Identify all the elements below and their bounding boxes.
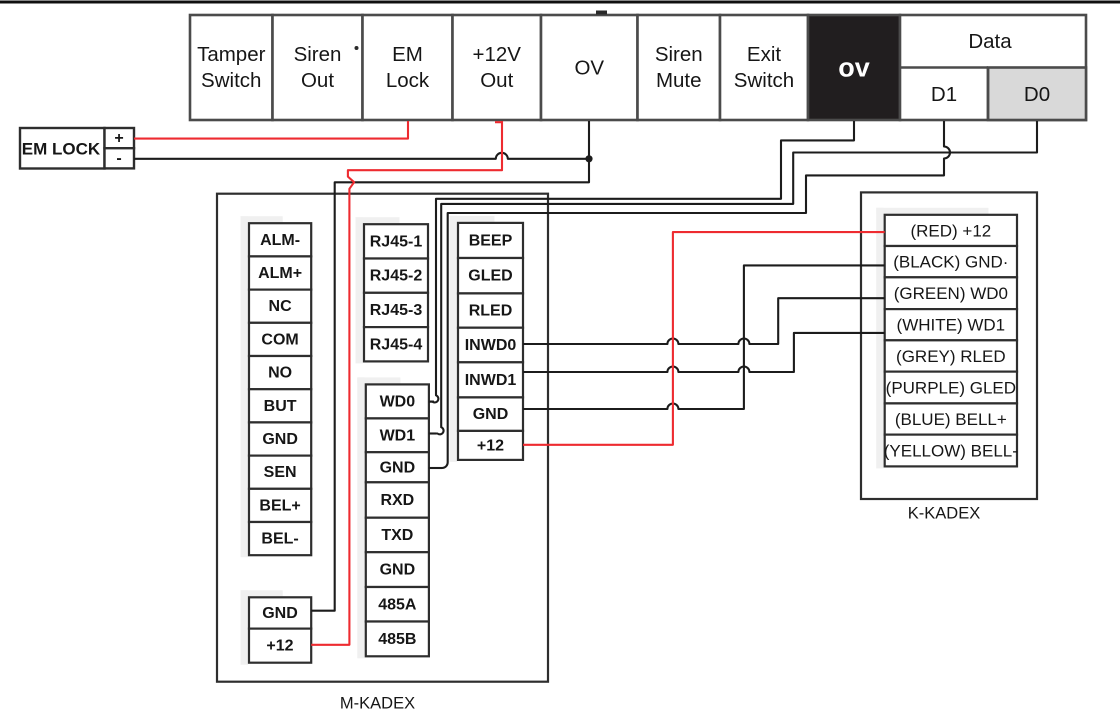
svg-text:D1: D1 [931,83,957,106]
svg-text:Switch: Switch [201,69,261,92]
svg-text:(WHITE) WD1: (WHITE) WD1 [897,316,1006,335]
terminal RJ45-1 [364,224,428,258]
svg-text:(YELLOW) BELL-: (YELLOW) BELL- [884,442,1018,461]
svg-text:ov: ov [838,53,870,83]
wire: EM LOCK - to OV terminal [134,153,589,159]
svg-text:K-KADEX: K-KADEX [908,505,980,523]
wire: D0 to WD1 [429,121,1037,434]
terminal OV [541,15,638,120]
svg-text:OV: OV [574,57,604,80]
wire: EM Lock terminal to EM LOCK + (red) [134,121,408,139]
svg-text:RJ45-2: RJ45-2 [370,268,423,285]
terminal RJ45-2 [364,259,428,293]
EM LOCK device box [20,128,105,169]
terminal +12 (M-KADEX power) [249,629,311,663]
svg-text:Out: Out [480,69,513,92]
svg-text:GND: GND [380,459,416,476]
svg-text:NC: NC [269,298,293,315]
svg-text:RJ45-1: RJ45-1 [370,233,423,250]
terminal GND [366,452,429,482]
svg-text:EM: EM [392,43,423,66]
svg-text:RJ45-3: RJ45-3 [370,302,423,319]
terminal ALM+ [249,256,311,289]
terminal 485A [366,587,429,622]
terminal NO [249,356,311,389]
svg-text:WD1: WD1 [380,427,416,444]
terminal Siren Mute [638,15,721,120]
stub GND [429,467,442,469]
wire: GND to (BLACK) GND [523,265,885,409]
EM LOCK + terminal [105,128,135,148]
svg-text:485A: 485A [378,596,417,613]
svg-text:Siren: Siren [294,43,342,66]
red stub at +12V Out [495,121,502,123]
terminal (BLACK) GND (K-KADEX) [885,246,1017,277]
svg-text:+12: +12 [477,437,504,454]
terminal 485B [366,622,429,657]
svg-text:BEL-: BEL- [261,531,298,548]
svg-text:GND: GND [262,605,298,622]
terminal Exit Switch [720,15,808,120]
svg-text:TXD: TXD [381,527,413,544]
terminal WD0 [366,384,429,418]
stub WD1 [429,432,436,434]
svg-text:Siren: Siren [655,43,703,66]
terminal BEL- [249,522,311,555]
terminal SEN [249,456,311,489]
svg-text:-: - [116,150,121,167]
terminal GND [366,552,429,587]
svg-text:BUT: BUT [264,398,297,415]
terminal Data (D1 / D0) [900,15,1086,120]
svg-text:COM: COM [261,331,298,348]
terminal GND [249,422,311,455]
svg-text:EM LOCK: EM LOCK [22,140,101,159]
junction dot at OV wire [585,155,592,162]
svg-text:(PURPLE) GLED: (PURPLE) GLED [886,379,1016,398]
svg-text:485B: 485B [378,631,416,648]
svg-text:Out: Out [301,69,334,92]
K-KADEX outer box [861,192,1037,499]
terminal (WHITE) WD1 (K-KADEX) [885,309,1017,340]
wire: 0V (black block) to WD0 [429,121,854,402]
terminal OV (0V black) [808,15,900,120]
tick mark above bar [596,11,607,15]
EM LOCK - terminal [105,148,135,168]
svg-text:(BLUE) BELL+: (BLUE) BELL+ [895,410,1007,429]
terminal GND (M-KADEX power) [249,597,311,628]
svg-text:RJ45-4: RJ45-4 [370,336,423,353]
svg-text:BEEP: BEEP [469,232,513,249]
terminal Siren Out [273,15,363,120]
svg-text:Lock: Lock [386,69,430,92]
terminal COM [249,323,311,356]
wire: +12V Out to M-KADEX +12 (red) [311,121,502,645]
svg-text:+: + [114,130,123,147]
wire: OV terminal to M-KADEX GND [311,121,589,611]
svg-text:GND: GND [262,431,298,448]
terminal (GREEN) WD0 (K-KADEX) [885,277,1017,309]
terminal +12V Out [453,15,542,120]
svg-text:(BLACK) GND·: (BLACK) GND· [893,253,1008,272]
svg-text:BEL+: BEL+ [259,497,300,514]
terminal BEEP [458,223,523,258]
wire: +12 to (RED) +12 (red) [523,232,885,445]
svg-text:+12: +12 [266,638,293,655]
svg-text:+12V: +12V [473,43,522,66]
terminal BUT [249,389,311,422]
svg-text:Tamper: Tamper [197,43,266,66]
terminal WD1 [366,418,429,452]
terminal Tamper Switch [190,15,273,120]
terminal RJ45-4 [364,327,428,361]
svg-text:RXD: RXD [380,492,414,509]
svg-text:GND: GND [473,406,509,423]
wire: INWD0 to (GREEN) WD0 [523,298,885,344]
terminal RJ45-3 [364,293,428,327]
dot after Siren [355,46,359,50]
terminal +12 [458,431,523,460]
svg-text:M-KADEX: M-KADEX [340,695,415,713]
terminal RLED [458,293,523,327]
svg-text:ALM-: ALM- [260,232,300,249]
terminal GND [458,397,523,431]
svg-text:ALM+: ALM+ [258,265,302,282]
terminal (PURPLE) GLED (K-KADEX) [885,372,1017,404]
wire: D1 to GND (serial) [429,121,950,468]
terminal GLED [458,258,523,293]
svg-text:SEN: SEN [264,464,297,481]
terminal BEL+ [249,489,311,522]
terminal (RED) +12 (K-KADEX) [885,215,1017,246]
svg-text:NO: NO [268,365,292,382]
terminal (YELLOW) BELL- (K-KADEX) [884,435,1018,467]
svg-text:INWD0: INWD0 [465,337,517,354]
stub WD0 [429,401,434,403]
svg-text:WD0: WD0 [380,393,416,410]
M-KADEX outer box [217,194,548,682]
terminal RXD [366,482,429,517]
terminal INWD1 [458,362,523,397]
svg-text:Data: Data [968,30,1012,53]
svg-text:Mute: Mute [656,69,702,92]
wire: INWD1 to (WHITE) WD1 [523,333,885,372]
svg-text:RLED: RLED [469,303,513,320]
svg-text:Exit: Exit [747,43,781,66]
svg-text:D0: D0 [1024,83,1050,106]
terminal TXD [366,518,429,553]
terminal (GREY) RLED (K-KADEX) [885,340,1017,371]
terminal NC [249,290,311,323]
terminal ALM- [249,223,311,256]
svg-text:(GREEN) WD0: (GREEN) WD0 [894,284,1008,303]
terminal EM Lock [363,15,453,120]
svg-text:(RED) +12: (RED) +12 [910,221,991,240]
svg-text:GLED: GLED [468,268,512,285]
terminal INWD0 [458,328,523,363]
svg-text:GND: GND [380,562,416,579]
svg-text:(GREY) RLED: (GREY) RLED [896,347,1006,366]
terminal (BLUE) BELL+ (K-KADEX) [885,403,1017,434]
svg-text:INWD1: INWD1 [465,372,517,389]
svg-text:Switch: Switch [734,69,794,92]
